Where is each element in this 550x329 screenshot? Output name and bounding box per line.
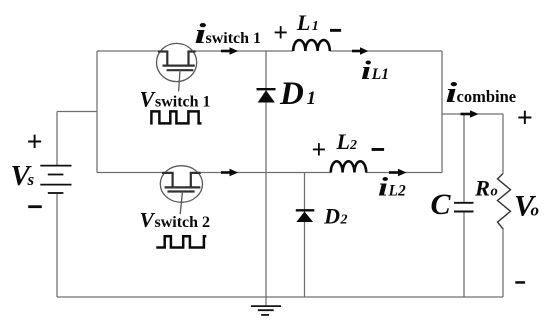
svg-text:C: C bbox=[431, 188, 452, 221]
svg-text:switch 1: switch 1 bbox=[206, 30, 262, 47]
svg-text:i: i bbox=[378, 173, 388, 202]
svg-text:1: 1 bbox=[307, 88, 317, 109]
svg-text:D: D bbox=[279, 76, 304, 112]
svg-text:i: i bbox=[446, 76, 458, 108]
svg-text:switch 2: switch 2 bbox=[155, 214, 211, 231]
svg-text:i: i bbox=[195, 17, 207, 49]
svg-text:+: + bbox=[517, 103, 533, 134]
svg-text:L: L bbox=[336, 129, 350, 154]
svg-text:switch 1: switch 1 bbox=[155, 94, 211, 111]
svg-text:D: D bbox=[323, 204, 340, 229]
svg-text:+: + bbox=[312, 135, 327, 164]
svg-text:L2: L2 bbox=[388, 183, 406, 200]
svg-text:V: V bbox=[140, 87, 157, 112]
svg-text:o: o bbox=[491, 184, 498, 200]
svg-text:1: 1 bbox=[312, 19, 319, 34]
svg-text:L1: L1 bbox=[371, 66, 389, 83]
svg-text:R: R bbox=[474, 176, 490, 201]
svg-text:o: o bbox=[531, 200, 540, 219]
svg-text:2: 2 bbox=[340, 213, 348, 228]
svg-text:+: + bbox=[27, 127, 43, 158]
svg-text:s: s bbox=[27, 170, 35, 189]
svg-text:L: L bbox=[296, 10, 310, 35]
svg-text:2: 2 bbox=[349, 138, 357, 153]
svg-text:combine: combine bbox=[457, 87, 517, 106]
svg-text:+: + bbox=[273, 18, 288, 47]
svg-text:V: V bbox=[140, 208, 156, 232]
svg-text:i: i bbox=[361, 56, 371, 85]
